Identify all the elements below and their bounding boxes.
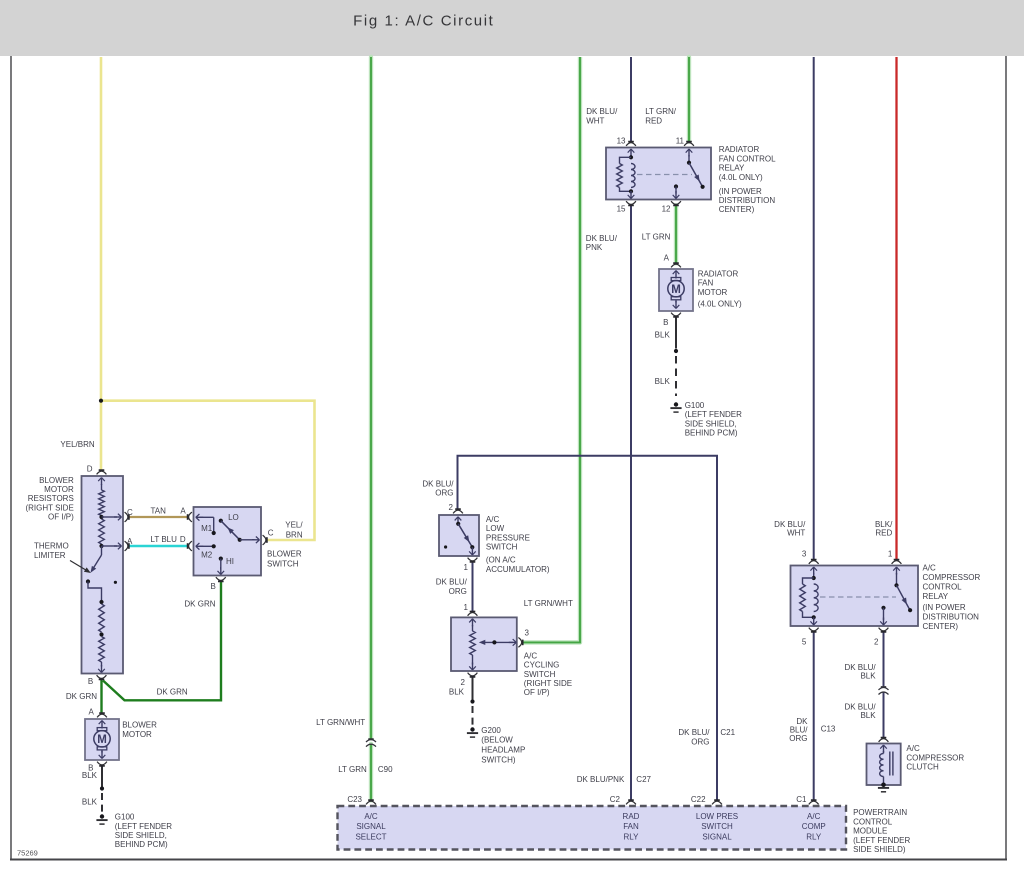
svg-text:SIDE SHIELD,: SIDE SHIELD, xyxy=(685,419,737,428)
svg-text:(BELOW: (BELOW xyxy=(481,736,513,745)
svg-text:RAD: RAD xyxy=(623,812,640,821)
svg-text:DISTRIBUTION: DISTRIBUTION xyxy=(923,612,980,621)
svg-text:LO: LO xyxy=(228,513,239,522)
svg-text:BRN: BRN xyxy=(286,531,303,540)
svg-text:DK BLU/: DK BLU/ xyxy=(586,107,618,116)
svg-text:SIGNAL: SIGNAL xyxy=(356,822,386,831)
svg-text:Fig 1: A/C Circuit: Fig 1: A/C Circuit xyxy=(353,13,494,30)
svg-text:LT GRN: LT GRN xyxy=(642,232,671,241)
svg-text:G100: G100 xyxy=(685,401,705,410)
svg-text:LOW: LOW xyxy=(486,524,505,533)
svg-text:M: M xyxy=(671,284,681,296)
svg-text:C2: C2 xyxy=(610,795,621,804)
svg-text:SWITCH): SWITCH) xyxy=(481,755,516,764)
svg-text:BLK: BLK xyxy=(860,672,876,681)
svg-text:ACCUMULATOR): ACCUMULATOR) xyxy=(486,565,550,574)
svg-text:ORG: ORG xyxy=(449,587,467,596)
svg-text:B: B xyxy=(663,318,668,327)
svg-text:A: A xyxy=(664,254,670,263)
svg-text:(ON A/C: (ON A/C xyxy=(486,556,516,565)
svg-text:(4.0L ONLY): (4.0L ONLY) xyxy=(698,299,742,308)
svg-text:A/C: A/C xyxy=(364,812,378,821)
svg-text:THERMO: THERMO xyxy=(34,541,69,550)
svg-text:OF I/P): OF I/P) xyxy=(524,688,550,697)
svg-text:C21: C21 xyxy=(720,728,735,737)
svg-text:(RIGHT SIDE: (RIGHT SIDE xyxy=(25,503,73,512)
svg-text:RADIATOR: RADIATOR xyxy=(719,145,760,154)
svg-text:YEL/: YEL/ xyxy=(285,521,303,530)
svg-text:G100: G100 xyxy=(115,813,135,822)
svg-text:CONTROL: CONTROL xyxy=(853,817,893,826)
svg-text:BEHIND PCM): BEHIND PCM) xyxy=(115,840,168,849)
svg-text:11: 11 xyxy=(676,137,685,146)
svg-text:15: 15 xyxy=(617,205,626,214)
svg-text:LIMITER: LIMITER xyxy=(34,551,66,560)
svg-text:A: A xyxy=(88,708,94,717)
svg-text:LOW PRES: LOW PRES xyxy=(696,812,738,821)
svg-text:A/C: A/C xyxy=(524,651,538,660)
svg-text:D: D xyxy=(87,465,93,474)
svg-text:(IN POWER: (IN POWER xyxy=(923,603,966,612)
svg-text:RLY: RLY xyxy=(806,832,822,841)
svg-text:A/C: A/C xyxy=(923,563,937,572)
svg-text:C27: C27 xyxy=(636,775,651,784)
svg-text:SWITCH: SWITCH xyxy=(524,670,556,679)
svg-text:SELECT: SELECT xyxy=(355,832,386,841)
svg-text:DK BLU/: DK BLU/ xyxy=(422,480,454,489)
svg-text:3: 3 xyxy=(802,550,807,559)
svg-text:A: A xyxy=(180,506,186,515)
svg-text:FAN: FAN xyxy=(623,822,639,831)
svg-text:FAN CONTROL: FAN CONTROL xyxy=(719,154,776,163)
svg-text:SIDE SHIELD): SIDE SHIELD) xyxy=(853,845,906,854)
svg-text:RELAY: RELAY xyxy=(923,592,949,601)
svg-text:13: 13 xyxy=(617,137,626,146)
svg-text:BEHIND PCM): BEHIND PCM) xyxy=(685,429,738,438)
svg-text:CLUTCH: CLUTCH xyxy=(906,763,939,772)
svg-text:WHT: WHT xyxy=(787,529,805,538)
svg-text:(LEFT FENDER: (LEFT FENDER xyxy=(853,836,910,845)
svg-text:WHT: WHT xyxy=(586,116,604,125)
svg-text:RESISTORS: RESISTORS xyxy=(28,494,74,503)
svg-text:HI: HI xyxy=(226,557,234,566)
svg-text:C90: C90 xyxy=(378,765,393,774)
svg-text:BLU/: BLU/ xyxy=(790,725,809,734)
svg-text:M1: M1 xyxy=(201,524,213,533)
svg-text:C23: C23 xyxy=(347,795,362,804)
svg-text:SWITCH: SWITCH xyxy=(701,822,733,831)
svg-text:MOTOR: MOTOR xyxy=(122,730,152,739)
svg-text:OF I/P): OF I/P) xyxy=(48,513,74,522)
svg-text:DK BLU/PNK: DK BLU/PNK xyxy=(577,775,625,784)
svg-text:C: C xyxy=(127,508,133,517)
svg-text:TAN: TAN xyxy=(151,506,167,515)
svg-text:M2: M2 xyxy=(201,550,213,559)
svg-text:CONTROL: CONTROL xyxy=(923,582,963,591)
svg-text:2: 2 xyxy=(874,638,879,647)
svg-text:PNK: PNK xyxy=(586,243,603,252)
svg-text:C1: C1 xyxy=(796,795,807,804)
svg-text:BLK: BLK xyxy=(82,771,98,780)
svg-text:LT GRN/: LT GRN/ xyxy=(645,107,677,116)
svg-text:BLOWER: BLOWER xyxy=(267,550,302,559)
svg-text:BLK: BLK xyxy=(860,711,876,720)
svg-text:PRESSURE: PRESSURE xyxy=(486,533,530,542)
svg-text:LT GRN/WHT: LT GRN/WHT xyxy=(316,718,365,727)
svg-text:A/C: A/C xyxy=(906,744,920,753)
svg-text:BLK: BLK xyxy=(82,798,98,807)
svg-text:DISTRIBUTION: DISTRIBUTION xyxy=(719,196,776,205)
svg-text:RADIATOR: RADIATOR xyxy=(698,270,739,279)
svg-text:BLK: BLK xyxy=(655,331,671,340)
svg-text:C13: C13 xyxy=(821,724,836,733)
svg-text:BLOWER: BLOWER xyxy=(122,720,157,729)
svg-text:DK GRN: DK GRN xyxy=(157,687,188,696)
svg-text:(IN POWER: (IN POWER xyxy=(719,187,762,196)
svg-text:LT BLU: LT BLU xyxy=(151,535,178,544)
svg-text:CENTER): CENTER) xyxy=(923,622,959,631)
svg-text:SWITCH: SWITCH xyxy=(267,559,299,568)
svg-text:M: M xyxy=(97,734,107,746)
svg-text:RLY: RLY xyxy=(624,832,640,841)
svg-text:COMP: COMP xyxy=(802,822,826,831)
svg-text:ORG: ORG xyxy=(435,489,453,498)
svg-text:DK BLU/: DK BLU/ xyxy=(586,234,618,243)
svg-text:BLK: BLK xyxy=(655,377,671,386)
svg-text:G200: G200 xyxy=(481,726,501,735)
svg-text:75269: 75269 xyxy=(17,849,38,858)
svg-text:LT GRN/WHT: LT GRN/WHT xyxy=(524,599,573,608)
svg-text:1: 1 xyxy=(464,603,469,612)
svg-text:MODULE: MODULE xyxy=(853,827,887,836)
svg-text:(LEFT FENDER: (LEFT FENDER xyxy=(115,822,172,831)
svg-text:RELAY: RELAY xyxy=(719,164,745,173)
svg-text:RED: RED xyxy=(645,116,662,125)
svg-text:YEL/BRN: YEL/BRN xyxy=(60,440,94,449)
svg-text:LT GRN: LT GRN xyxy=(338,765,367,774)
svg-text:2: 2 xyxy=(449,503,454,512)
svg-text:CYCLING: CYCLING xyxy=(524,661,560,670)
svg-text:COMPRESSOR: COMPRESSOR xyxy=(923,573,981,582)
svg-text:C22: C22 xyxy=(691,795,706,804)
svg-text:SIGNAL: SIGNAL xyxy=(702,832,732,841)
svg-text:COMPRESSOR: COMPRESSOR xyxy=(906,753,964,762)
svg-text:(LEFT FENDER: (LEFT FENDER xyxy=(685,410,742,419)
svg-text:12: 12 xyxy=(662,205,671,214)
svg-text:D: D xyxy=(180,535,186,544)
svg-text:DK GRN: DK GRN xyxy=(66,692,97,701)
svg-text:SIDE SHIELD,: SIDE SHIELD, xyxy=(115,831,167,840)
svg-text:B: B xyxy=(88,677,93,686)
svg-text:FAN: FAN xyxy=(698,279,714,288)
svg-text:ORG: ORG xyxy=(691,738,709,747)
svg-text:1: 1 xyxy=(888,550,893,559)
svg-text:C: C xyxy=(268,529,274,538)
svg-text:RED: RED xyxy=(875,529,892,538)
svg-text:CENTER): CENTER) xyxy=(719,205,755,214)
svg-text:DK GRN: DK GRN xyxy=(184,600,215,609)
svg-text:B: B xyxy=(210,582,215,591)
svg-text:BLK: BLK xyxy=(449,687,465,696)
svg-text:BLOWER: BLOWER xyxy=(39,476,74,485)
svg-text:3: 3 xyxy=(525,629,530,638)
svg-text:(RIGHT SIDE: (RIGHT SIDE xyxy=(524,679,572,688)
svg-text:1: 1 xyxy=(464,563,469,572)
svg-text:MOTOR: MOTOR xyxy=(698,288,728,297)
svg-text:A/C: A/C xyxy=(807,812,821,821)
svg-text:POWERTRAIN: POWERTRAIN xyxy=(853,808,907,817)
svg-text:2: 2 xyxy=(461,678,466,687)
svg-text:DK BLU/: DK BLU/ xyxy=(678,728,710,737)
svg-text:A: A xyxy=(127,537,133,546)
svg-text:ORG: ORG xyxy=(789,734,807,743)
svg-text:(4.0L ONLY): (4.0L ONLY) xyxy=(719,173,763,182)
svg-text:SWITCH: SWITCH xyxy=(486,543,518,552)
svg-text:DK BLU/: DK BLU/ xyxy=(436,578,468,587)
svg-text:HEADLAMP: HEADLAMP xyxy=(481,746,525,755)
svg-text:MOTOR: MOTOR xyxy=(44,485,74,494)
svg-text:5: 5 xyxy=(802,638,807,647)
svg-text:A/C: A/C xyxy=(486,515,500,524)
